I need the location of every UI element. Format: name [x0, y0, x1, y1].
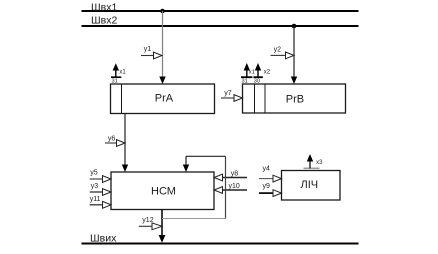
svg-text:y10: y10	[229, 183, 240, 190]
wire feedback right	[225, 156, 227, 218]
svg-text:y2: y2	[274, 46, 282, 53]
strobe y9	[259, 192, 273, 194]
svg-text:x3: x3	[316, 160, 323, 166]
bus Швих	[82, 243, 359, 245]
svg-text:x1: x1	[119, 70, 126, 76]
output x3 of ЛІЧ	[304, 167, 320, 169]
wire HCM output to bus	[161, 210, 163, 236]
svg-text:Швих: Швих	[90, 232, 117, 244]
strobe y10	[223, 189, 248, 191]
wire feedback top	[186, 155, 226, 157]
register PrB	[243, 84, 346, 113]
svg-text:ЛІЧ: ЛІЧ	[301, 179, 319, 191]
svg-text:y9: y9	[263, 183, 271, 190]
strobe y7	[221, 97, 234, 99]
strobe y3	[90, 191, 103, 193]
output x1 of PrA	[111, 76, 121, 78]
svg-text:НСМ: НСМ	[151, 186, 176, 198]
output x2 of PrB	[253, 76, 263, 78]
svg-text:y12: y12	[142, 217, 153, 224]
svg-text:y5: y5	[90, 170, 98, 177]
bus Швх1	[82, 10, 359, 12]
strobe y4	[259, 178, 273, 180]
strobe y11	[90, 204, 103, 206]
svg-text:y11: y11	[90, 196, 101, 203]
svg-text:31: 31	[242, 78, 248, 84]
node junction on Швх1	[160, 9, 165, 14]
adder HCM	[111, 172, 214, 210]
strobe y6	[105, 142, 117, 144]
node junction on Швх2	[292, 24, 297, 29]
wire bus2 to PrB	[293, 26, 295, 77]
svg-text:y7: y7	[224, 90, 232, 97]
svg-text:x1: x1	[249, 70, 255, 76]
strobe y8	[223, 177, 248, 179]
wire feedback bottom	[162, 218, 226, 220]
svg-text:y4: y4	[263, 165, 271, 172]
wire feedback into HCM	[185, 156, 187, 165]
svg-text:Швх2: Швх2	[91, 15, 117, 27]
output x1 of PrB	[241, 76, 252, 78]
svg-text:PrA: PrA	[155, 93, 174, 105]
svg-text:y6: y6	[108, 135, 116, 142]
svg-text:30: 30	[254, 78, 260, 84]
svg-text:y8: y8	[231, 171, 239, 178]
bus Швх2	[82, 25, 359, 27]
strobe y1	[141, 55, 154, 57]
svg-text:x2: x2	[264, 70, 271, 76]
wire PrA to HCM	[124, 114, 126, 166]
strobe y2	[271, 54, 286, 56]
counter ЛІЧ	[282, 171, 341, 201]
strobe y12	[139, 225, 152, 227]
register PrA	[111, 84, 215, 114]
wire bus1 to PrA	[162, 11, 164, 77]
svg-text:Швх1: Швх1	[91, 2, 117, 14]
svg-text:y3: y3	[91, 183, 99, 190]
svg-text:31: 31	[112, 78, 118, 84]
strobe y5	[90, 178, 103, 180]
svg-text:y1: y1	[144, 46, 152, 53]
svg-text:PrB: PrB	[286, 94, 304, 106]
